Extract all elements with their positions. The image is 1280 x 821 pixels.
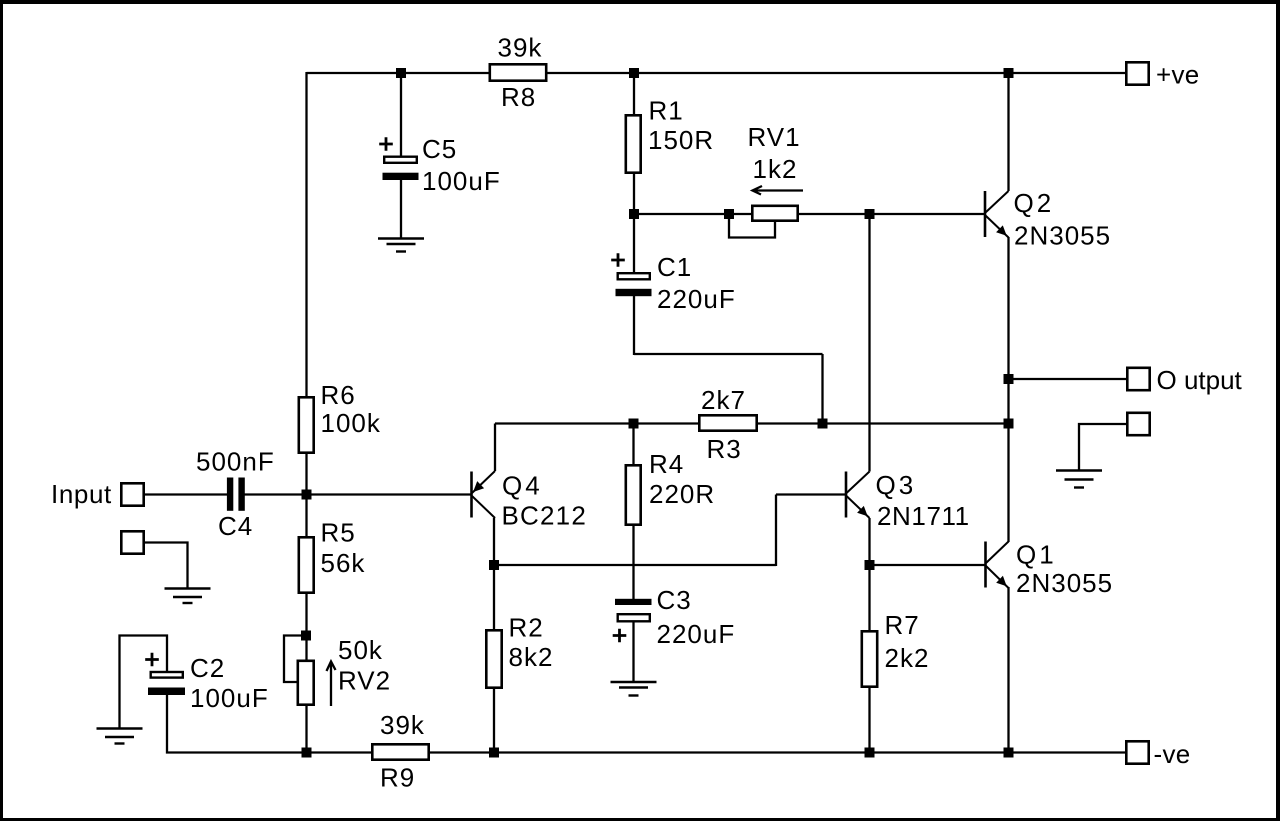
capacitor C5 positive plate	[384, 157, 417, 163]
wire vertical jog up to Q3 base	[775, 495, 777, 567]
svg-text:39k: 39k	[498, 33, 543, 63]
wire -ve supply rail (bottom)	[429, 751, 1125, 753]
ground output terminal	[1056, 471, 1102, 488]
svg-text:C4: C4	[218, 511, 253, 541]
svg-text:2k2: 2k2	[885, 643, 930, 673]
wire R4 top lead	[632, 424, 634, 466]
svg-text:C2: C2	[190, 653, 225, 683]
capacitor C3 polarity plus	[613, 629, 627, 643]
potentiometer RV2 wiper link	[284, 636, 307, 683]
svg-text:+ve: +ve	[1156, 60, 1200, 90]
terminal +ve pad	[1126, 62, 1148, 84]
junction +ve rail / R1	[629, 68, 639, 78]
junction +ve rail / C5	[396, 68, 406, 78]
resistor R5 body	[299, 537, 314, 592]
svg-text:R6: R6	[321, 380, 356, 410]
wire R4 bottom to C3	[632, 525, 634, 600]
wire C1 branch down to R3 output wire	[821, 354, 823, 424]
svg-text:R8: R8	[501, 82, 536, 112]
svg-text:500nF: 500nF	[196, 447, 275, 477]
wire R6 to R5 through input node	[305, 453, 307, 537]
transistor Q4 BC212 (PNP)	[472, 471, 496, 518]
svg-text:Q4: Q4	[502, 471, 543, 501]
wire input ground terminal lead	[144, 543, 188, 590]
svg-text:220R: 220R	[649, 479, 715, 509]
wire Output ground terminal lead	[1079, 424, 1126, 471]
wire Q2 collector up to +ve rail	[1007, 72, 1009, 191]
wire C5 top lead	[400, 73, 402, 156]
svg-text:100k: 100k	[321, 408, 381, 438]
wire C3 bottom to ground	[632, 622, 634, 682]
svg-text:R2: R2	[509, 613, 544, 643]
svg-text:2N3055: 2N3055	[1014, 221, 1111, 251]
wire R1 top lead	[633, 73, 635, 115]
svg-text:C3: C3	[657, 585, 692, 615]
capacitor C2 polarity plus	[145, 653, 159, 667]
resistor R7 body	[862, 631, 877, 686]
svg-text:2N1711: 2N1711	[877, 501, 970, 531]
svg-text:C1: C1	[657, 252, 692, 282]
junction -ve rail / Q1 emitter	[1004, 748, 1014, 758]
svg-text:100uF: 100uF	[422, 166, 501, 196]
transistor Q2 2N3055	[985, 191, 1009, 238]
svg-text:Input: Input	[51, 479, 112, 509]
wire R2 bottom to -ve rail	[493, 688, 495, 753]
svg-text:R1: R1	[649, 96, 684, 126]
svg-text:RV1: RV1	[748, 122, 801, 152]
capacitor C5 polarity plus	[379, 137, 393, 151]
svg-text:2k7: 2k7	[701, 385, 746, 415]
junction Q3 emitter / R7 / Q1 base	[865, 560, 875, 570]
wire +ve supply rail (top)	[307, 72, 1126, 74]
capacitor C1 negative plate	[616, 289, 652, 296]
potentiometer RV1 adjust arrow	[753, 186, 804, 195]
svg-text:R5: R5	[321, 518, 356, 548]
potentiometer RV2 body	[298, 661, 314, 705]
wire Q3 base lead	[776, 493, 846, 495]
resistor R6 body	[299, 397, 314, 452]
wire from +ve rail down to R6	[305, 72, 307, 397]
svg-text:BC212: BC212	[502, 501, 588, 531]
wire RV1 right terminal to Q2 base	[798, 213, 985, 215]
junction +ve rail / Q2 collector	[1004, 68, 1014, 78]
capacitor C1 polarity plus	[611, 253, 625, 267]
junction R3 row / R4 top	[629, 419, 639, 429]
junction RV1 right / Q3 collector	[865, 209, 875, 219]
potentiometer RV1 wiper link	[729, 214, 775, 238]
svg-text:O utput: O utput	[1157, 365, 1243, 395]
resistor R3 body	[699, 415, 756, 430]
junction R3 row / C1 branch	[818, 419, 828, 429]
capacitor C3 positive plate	[618, 614, 650, 621]
svg-text:8k2: 8k2	[509, 642, 554, 672]
svg-text:2N3055: 2N3055	[1016, 568, 1113, 598]
junction input node R6/R5/C4/Q4 base	[302, 490, 312, 500]
ground C3	[611, 682, 657, 696]
wire C2 positive to ground	[120, 636, 168, 730]
svg-text:Q3: Q3	[876, 470, 917, 500]
svg-text:R9: R9	[380, 763, 415, 793]
svg-text:R3: R3	[707, 434, 742, 464]
wire Q3 emitter node to Q1 base	[870, 564, 986, 566]
wire Input terminal to C4	[144, 493, 227, 495]
wire Q2 emitter to Q1 collector (output node)	[1007, 237, 1009, 542]
svg-text:C5: C5	[422, 134, 457, 164]
junction -ve rail / R7	[865, 748, 875, 758]
wire output node to Output terminal	[1009, 378, 1127, 380]
svg-text:Q1: Q1	[1016, 540, 1057, 570]
terminal -ve pad	[1126, 741, 1148, 763]
capacitor C4 left plate	[227, 478, 233, 511]
wire Q1 emitter down to -ve rail	[1007, 587, 1009, 753]
svg-text:56k: 56k	[321, 548, 366, 578]
junction RV1 left / wiper	[724, 209, 734, 219]
wire R7 bottom to -ve rail	[868, 687, 870, 753]
wire Q3 emitter down to R7	[868, 518, 870, 631]
ground C2	[97, 729, 143, 744]
ground input terminal	[165, 589, 211, 604]
resistor R9 body	[372, 744, 428, 759]
junction R3 row / output node	[1004, 419, 1014, 429]
svg-text:-ve: -ve	[1154, 739, 1191, 769]
capacitor C5 negative plate	[383, 173, 419, 180]
svg-text:100uF: 100uF	[190, 683, 269, 713]
capacitor C3 negative plate	[615, 599, 652, 605]
resistor R1 body	[626, 115, 641, 172]
wire Q4 collector to Q3 base (horizontal)	[494, 564, 776, 566]
svg-text:220uF: 220uF	[657, 619, 736, 649]
wire Q4 collector down to R2	[493, 518, 495, 630]
wire Q4 emitter vertical	[494, 424, 496, 472]
wire R1 bottom to C1 plus (bias node)	[633, 173, 635, 273]
svg-text:R7: R7	[885, 610, 920, 640]
potentiometer RV1 body	[752, 206, 797, 221]
resistor R8 body	[490, 64, 546, 80]
capacitor C2 negative plate	[148, 688, 185, 696]
terminal output ground pad	[1127, 413, 1149, 435]
junction R5 / RV2 wiper node	[301, 631, 311, 641]
capacitor C4 right plate	[238, 478, 244, 511]
terminal Input pad	[121, 483, 143, 505]
junction output node / Output terminal	[1004, 374, 1014, 384]
wire C2 negative to -ve rail	[167, 694, 372, 753]
transistor Q3 2N1711	[846, 472, 870, 519]
svg-text:220uF: 220uF	[657, 284, 736, 314]
wire C1 negative to R3 node (horizontal)	[634, 353, 823, 355]
wire RV1 node down to Q3 collector	[868, 214, 870, 472]
resistor R2 body	[486, 630, 501, 687]
svg-text:39k: 39k	[380, 710, 425, 740]
junction Q4 collector / R2 / Q3 base wire	[489, 560, 499, 570]
junction -ve rail / RV2	[302, 748, 312, 758]
wire C5 bottom lead to ground	[400, 179, 402, 238]
transistor Q1 2N3055	[986, 542, 1009, 589]
junction -ve rail / R2	[489, 748, 499, 758]
terminal Output pad	[1127, 368, 1149, 390]
svg-text:1k2: 1k2	[753, 154, 798, 184]
wire Q4 emitter node across R3 row to output	[495, 422, 1009, 424]
svg-text:50k: 50k	[338, 635, 383, 665]
svg-text:RV2: RV2	[338, 666, 391, 696]
capacitor C2 positive plate	[151, 672, 183, 678]
terminal input ground pad	[121, 531, 143, 553]
svg-text:150R: 150R	[648, 125, 714, 155]
potentiometer RV2 adjust arrow	[327, 662, 336, 707]
svg-text:Q2: Q2	[1014, 188, 1055, 218]
junction bias node R1/C1/RV1	[629, 209, 639, 219]
ground C5	[378, 239, 424, 252]
wire C1 bottom lead	[633, 296, 635, 355]
svg-text:R4: R4	[649, 449, 684, 479]
wire bias node to RV1 left terminal	[634, 213, 752, 215]
resistor R4 body	[626, 465, 641, 524]
wire R5 to RV2 top	[305, 593, 307, 660]
wire C4 to Q4 base	[244, 493, 471, 495]
wire RV2 bottom to -ve rail	[305, 706, 307, 753]
capacitor C1 positive plate	[618, 273, 650, 279]
